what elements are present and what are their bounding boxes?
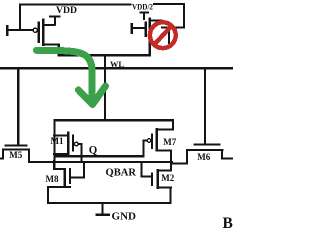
- VDD/2 stem: [143, 12, 145, 21]
- wire P2 drain loop right: [183, 3, 185, 29]
- M1 gate plate: [72, 135, 74, 152]
- P2 gate plate: [145, 22, 147, 38]
- VDD stem: [54, 17, 56, 26]
- svg-text:WL: WL: [110, 60, 124, 69]
- P1 gate plate: [38, 22, 40, 43]
- svg-text:M8: M8: [46, 174, 59, 184]
- P2 gate terminal tick: [131, 23, 133, 34]
- arrow shaft: [37, 50, 93, 96]
- wire cell supply feed line: [58, 54, 151, 56]
- transistor M2 (right NMOS driver): [141, 161, 173, 203]
- wire P1 source drop: [58, 43, 60, 56]
- arrow head: [79, 86, 106, 105]
- transistor M8 (left NMOS driver): [47, 160, 85, 204]
- wire P2 drain: [149, 20, 163, 22]
- wire M8 drain riser: [53, 160, 55, 170]
- wire M5 gate from WL: [17, 68, 19, 145]
- P2 channel: [149, 18, 151, 43]
- wire P2 gate: [131, 27, 146, 29]
- wire M1 gate drop to QBAR: [80, 143, 82, 161]
- wire latch supply drop: [104, 54, 106, 121]
- red circle ring: [150, 22, 176, 48]
- latch right rail upper: [172, 119, 174, 131]
- M8 gate plate: [69, 168, 71, 184]
- transistor M6 (right access): [170, 68, 233, 165]
- wire bitline stub right: [221, 157, 233, 159]
- M5 left leg: [2, 149, 4, 160]
- svg-text:M2: M2: [161, 173, 174, 183]
- wire M1 gate: [78, 143, 83, 145]
- wire M1 drain: [53, 153, 68, 155]
- M1 bubble: [75, 142, 79, 146]
- transistor M7 (right PMOS pull-up): [143, 128, 175, 164]
- M2 channel: [157, 169, 159, 189]
- M5 channel bar: [2, 149, 30, 151]
- VDD/2 T-bar: [140, 12, 150, 14]
- svg-text:M1: M1: [51, 136, 64, 146]
- wire M2 drain: [157, 170, 173, 172]
- wire M6 to QBAR node: [170, 162, 188, 164]
- svg-text:Q: Q: [89, 145, 98, 157]
- transistor P2 (VDD/2 PMOS, top-right): [131, 3, 186, 56]
- node QBAR line: [28, 161, 173, 163]
- M6 left leg: [186, 149, 188, 165]
- GND rail: [47, 202, 172, 204]
- wire M2 source riser to GND: [169, 186, 171, 203]
- wire M7 drain drop to QBAR: [170, 150, 172, 164]
- M6 channel bar: [186, 149, 223, 151]
- node Q line: [53, 155, 144, 157]
- wire M8 gate riser to QBAR: [83, 161, 85, 179]
- svg-text:VDD/2: VDD/2: [132, 3, 153, 12]
- wire WL word line: [0, 67, 233, 69]
- M5 right leg: [28, 149, 30, 162]
- M8 channel: [64, 168, 66, 187]
- P1 channel: [42, 19, 44, 47]
- wire M7 gate drop to Q: [143, 140, 145, 157]
- latch left rail: [53, 119, 55, 170]
- M1 channel: [67, 132, 69, 156]
- svg-text:B: B: [223, 215, 233, 232]
- prohibition symbol (red): [150, 22, 176, 48]
- svg-text:M5: M5: [9, 150, 22, 160]
- wire M2 source: [157, 186, 173, 188]
- wire P2 drain loop top: [153, 3, 185, 5]
- M6 right leg: [221, 149, 223, 160]
- wire M2 drain riser to QBAR: [170, 161, 172, 172]
- wire bitline stub left: [0, 158, 4, 160]
- M2 gate plate: [151, 173, 153, 187]
- wire P2 source drop: [149, 43, 151, 57]
- wire M8 gate: [70, 177, 84, 179]
- ground symbol bar: [95, 214, 110, 217]
- wire M2 gate drop from QBAR: [141, 161, 143, 178]
- wire M7 source: [157, 128, 175, 130]
- red diagonal bar: [151, 23, 174, 47]
- transistor P1 (VDD gating PMOS, top-left): [6, 4, 131, 56]
- svg-text:M6: M6: [197, 152, 210, 162]
- svg-text:QBAR: QBAR: [106, 167, 137, 178]
- svg-text:GND: GND: [112, 210, 137, 222]
- M5 gate bar: [4, 144, 27, 146]
- wire M8 source: [47, 186, 71, 188]
- M6 gate bar: [194, 143, 221, 145]
- wire M7 drain: [156, 150, 173, 152]
- wire M8 source riser to GND: [47, 186, 49, 204]
- M7 gate plate: [151, 134, 153, 150]
- green annotation arrow: [37, 50, 106, 104]
- M7 channel: [156, 128, 158, 151]
- wire P1 source: [42, 43, 60, 45]
- P1 gate terminal tick: [6, 25, 8, 36]
- transistor M5 (left access): [0, 68, 30, 161]
- transistor M1 (left PMOS pull-up): [53, 132, 83, 162]
- latch top rail: [53, 119, 174, 121]
- wire M1 source: [53, 135, 68, 137]
- wire P2 inner drop: [168, 26, 170, 44]
- wire M7 gate: [143, 140, 148, 142]
- svg-text:M7: M7: [163, 137, 176, 147]
- VDD T-bar: [49, 15, 61, 17]
- wire P2 drain loop bottom: [161, 26, 185, 28]
- wire gate feed drop: [19, 4, 21, 31]
- wire P1 drain: [42, 24, 56, 26]
- wire M2 gate: [141, 176, 153, 178]
- P1 bubble: [33, 28, 37, 32]
- svg-text:VDD: VDD: [56, 5, 78, 15]
- wire M6 gate from WL: [204, 68, 206, 144]
- ground symbol stem: [101, 202, 103, 214]
- M7 bubble: [147, 139, 151, 143]
- M8 top arm: [53, 168, 66, 170]
- wire P1 gate: [6, 29, 34, 31]
- wire gate feed top line: [19, 4, 132, 6]
